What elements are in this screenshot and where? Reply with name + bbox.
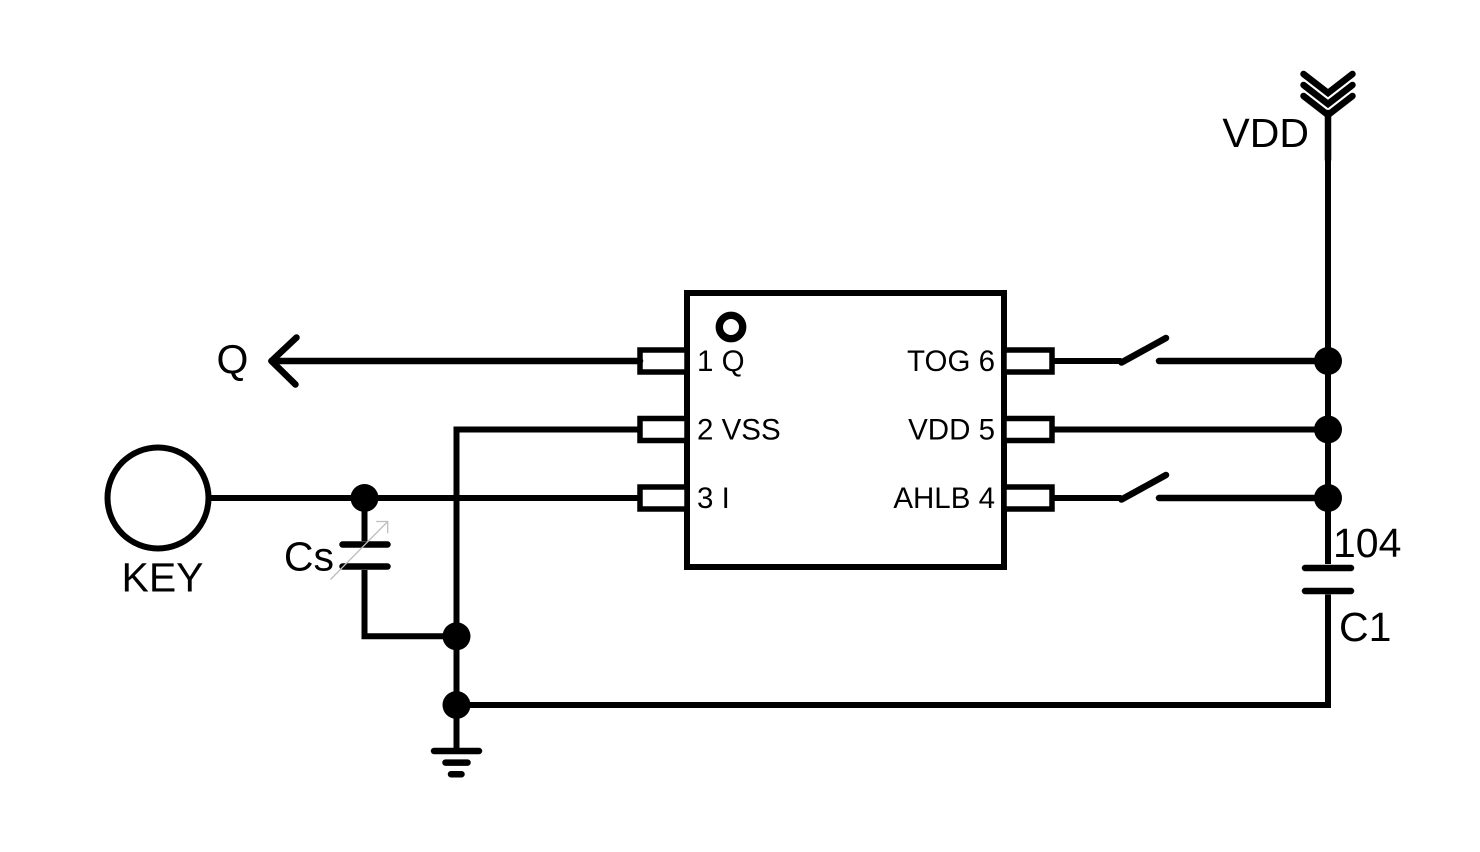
wire C1 top lead [1325,498,1331,564]
chevron top [1304,74,1353,93]
pin 5 stub [1004,419,1052,441]
ground symbol [434,751,479,774]
pin 2 stub [640,419,687,441]
svg-text:104: 104 [1333,520,1401,566]
svg-text:2 VSS: 2 VSS [697,414,781,447]
C1 bottom plate [1305,588,1351,595]
svg-text:C1: C1 [1339,604,1391,650]
wire C1 bottom lead [1325,595,1331,709]
ground bar long [434,748,479,755]
Cs bottom plate [343,563,388,570]
chevron middle [1304,85,1353,104]
ground bar middle [446,759,468,766]
node junction dot rail/TOG [1314,347,1342,375]
svg-text:Q: Q [217,337,249,383]
pin 6 stub [1004,350,1052,372]
chevron bottom [1304,96,1353,115]
node junction dot rail/VDD5 [1314,416,1342,444]
IC U1 body [687,293,1004,567]
switch S2 on AHLB pin 4 [1052,475,1328,500]
IC pin-1 marker circle [719,315,742,338]
wire Cs top lead [362,498,368,541]
svg-text:1 Q: 1 Q [697,345,745,378]
svg-text:AHLB 4: AHLB 4 [893,482,995,515]
pin 4 stub [1004,487,1052,509]
arrow shaft [331,522,388,580]
wire pin4 to switch pivot [1052,495,1122,501]
wire pin6 to switch pivot [1052,358,1122,364]
wire Q horizontal [272,358,641,365]
arrowhead lower stroke [272,361,296,385]
wire VSS pin2 to ground vertical [457,430,641,751]
Cs top plate [343,541,388,548]
switch blade [1122,338,1167,363]
C1 top plate [1305,565,1351,572]
wire Q output with arrowhead [272,338,641,385]
svg-text:3 I: 3 I [697,482,730,515]
node junction dot bottom wire [443,691,471,719]
ground bar short [451,771,462,778]
switch S1 on TOG pin 6 [1052,338,1328,363]
node junction dot KEY/Cs [351,484,379,512]
variable-capacitor arrow (gray) on Cs [331,522,388,580]
pin 1 stub [640,350,687,372]
wire switch contact to rail [1159,358,1328,365]
wire KEY to pin 3 I [209,495,641,501]
node junction dot Cs/ground net [443,622,471,650]
svg-text:VDD: VDD [1222,110,1309,156]
wire Cs bottom lead to ground net [365,570,457,636]
arrowhead upper stroke [272,338,297,362]
node junction dot rail/AHLB [1314,484,1342,512]
wire VDD pin5 to rail [1052,427,1328,433]
stem [1325,113,1332,160]
touch pad KEY circle [108,448,209,549]
svg-text:Cs: Cs [284,534,334,580]
wire switch contact to rail [1159,495,1328,502]
capacitor Cs [343,498,457,636]
switch blade [1122,475,1167,500]
wire VDD rail vertical [1325,150,1331,500]
wire bottom horizontal ground return [457,702,1332,708]
svg-text:VDD 5: VDD 5 [908,414,995,447]
arrow head [376,522,388,534]
power symbol VDD (triple chevron) [1304,74,1353,160]
capacitor C1 [1305,498,1351,708]
pin 3 stub [640,487,687,509]
svg-text:TOG 6: TOG 6 [907,345,995,378]
svg-text:KEY: KEY [121,555,203,601]
